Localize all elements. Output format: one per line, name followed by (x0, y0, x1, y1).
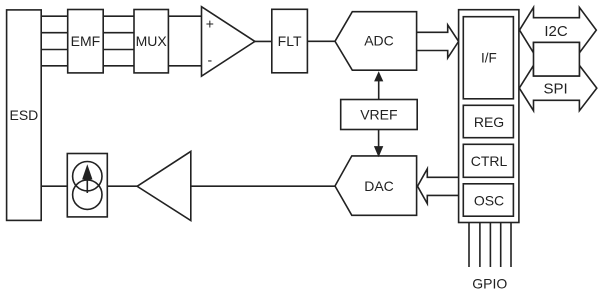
container box right (459, 10, 519, 223)
svg-text:I2C: I2C (544, 23, 568, 40)
svg-text:+: + (206, 16, 214, 32)
current source upper circle (73, 162, 102, 191)
GPIO pin 5 (510, 223, 512, 268)
wire row4 ESD to op-amp (41, 65, 201, 67)
ADC pentagon (335, 12, 417, 70)
DAC pentagon (335, 156, 417, 215)
GPIO pin 2 (479, 223, 481, 268)
block VREF (341, 100, 418, 130)
svg-text:EMF: EMF (71, 33, 101, 49)
wire row3 ESD to MUX (41, 49, 134, 51)
op-amp triangle (202, 7, 255, 77)
current source lower circle (73, 180, 102, 209)
svg-text:MUX: MUX (136, 33, 168, 49)
svg-text:ADC: ADC (364, 33, 394, 49)
GPIO pin 4 (500, 223, 502, 268)
block FLT (272, 9, 308, 73)
amplifier triangle (buffer) (137, 151, 191, 220)
svg-text:DAC: DAC (364, 178, 394, 194)
block arrow ADC to I/F (417, 25, 459, 58)
block OSC (463, 184, 513, 216)
svg-text:I/F: I/F (481, 50, 497, 65)
svg-text:ESD: ESD (10, 107, 39, 123)
wire op-amp output to FLT (255, 40, 272, 42)
block CTRL (463, 144, 513, 177)
arrow VREF to DAC (down) (378, 130, 380, 147)
wire ESD to DAC bottom path (41, 185, 335, 187)
wire row2 ESD to MUX (41, 32, 134, 34)
block I/F (463, 17, 513, 99)
GPIO pin 1 (468, 223, 470, 268)
svg-text:REG: REG (474, 114, 504, 130)
svg-text:-: - (207, 51, 212, 67)
block arrow container to DAC (418, 169, 459, 204)
arrow ADC to VREF (up) (378, 81, 380, 100)
wire FLT to ADC (307, 40, 335, 42)
I2C double arrow (520, 7, 597, 52)
SPI double arrow (519, 65, 597, 110)
block MUX (134, 10, 168, 73)
GPIO pin 3 (489, 223, 491, 268)
svg-text:FLT: FLT (278, 33, 302, 49)
svg-text:GPIO: GPIO (472, 275, 507, 289)
svg-text:VREF: VREF (360, 106, 397, 122)
current source box (67, 154, 107, 217)
svg-text:SPI: SPI (544, 81, 568, 98)
wire row1 ESD to op-amp (41, 15, 201, 17)
connector box between I2C and SPI (534, 42, 580, 76)
block ESD (7, 10, 42, 221)
current source arrow (86, 179, 88, 193)
block EMF (68, 10, 104, 73)
svg-text:CTRL: CTRL (471, 153, 508, 169)
block REG (463, 105, 513, 137)
svg-text:OSC: OSC (474, 193, 504, 209)
